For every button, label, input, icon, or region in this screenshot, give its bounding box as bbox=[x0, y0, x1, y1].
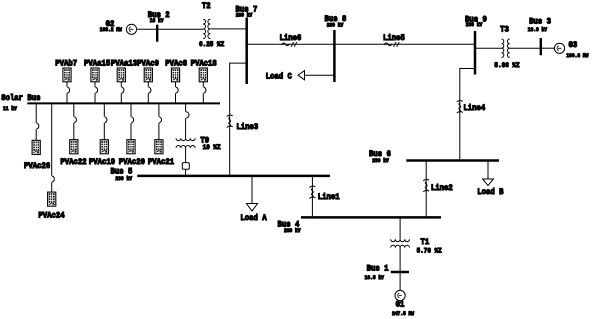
wire Bus 1 to G1 bbox=[399, 273, 401, 290]
svg-text:11 kV: 11 kV bbox=[3, 106, 17, 112]
svg-text:16.5 kV: 16.5 kV bbox=[365, 275, 384, 281]
line Line4 (Bus 9 - Bus 6) bbox=[457, 69, 486, 160]
svg-text:Load B: Load B bbox=[477, 188, 504, 198]
svg-text:PVAb7: PVAb7 bbox=[55, 59, 77, 69]
wire Bus 4 to T1 bbox=[399, 219, 401, 240]
load Load B bbox=[477, 162, 504, 198]
svg-text:5.86 %Z: 5.86 %Z bbox=[494, 61, 519, 68]
breaker box under T9 bbox=[182, 163, 189, 170]
svg-text:230 kV: 230 kV bbox=[466, 22, 483, 28]
svg-text:230 kV: 230 kV bbox=[115, 176, 132, 182]
bus Bus 9 (230 kV) bbox=[465, 15, 487, 75]
generator G2 bbox=[100, 20, 137, 35]
bus Solar Bus (11 kV) bbox=[1, 94, 220, 113]
svg-text:Line6: Line6 bbox=[279, 33, 301, 43]
svg-text:247.5 MW: 247.5 MW bbox=[392, 311, 414, 317]
PV array PVAc20 bbox=[119, 104, 146, 167]
PV array PVAc21 bbox=[148, 104, 175, 167]
svg-text:163.2 MW: 163.2 MW bbox=[100, 27, 122, 33]
svg-text:230 kV: 230 kV bbox=[284, 228, 301, 234]
bus Bus 6 (230 kV) bbox=[369, 149, 499, 164]
svg-text:PVAc24: PVAc24 bbox=[38, 211, 65, 221]
svg-text:PVAc18: PVAc18 bbox=[191, 59, 218, 69]
svg-text:230 kV: 230 kV bbox=[327, 22, 344, 28]
svg-text:13.8 kV: 13.8 kV bbox=[528, 27, 547, 33]
svg-text:T2: T2 bbox=[202, 2, 211, 12]
PV array PVAa15 bbox=[84, 59, 111, 102]
svg-text:T1: T1 bbox=[421, 238, 430, 248]
line Line6 (Bus 7 - Bus 8) bbox=[247, 33, 334, 46]
svg-text:Line1: Line1 bbox=[318, 193, 340, 203]
generator G3 bbox=[554, 40, 588, 59]
PV array PVAc18 bbox=[191, 59, 218, 102]
wire T1 to Bus 1 bbox=[399, 248, 401, 271]
svg-text:230 kV: 230 kV bbox=[372, 158, 389, 164]
svg-text:PVAa15: PVAa15 bbox=[84, 59, 111, 69]
line Line5 (Bus 8 - Bus 9) bbox=[334, 33, 474, 46]
svg-text:Line2: Line2 bbox=[431, 184, 453, 194]
wire Solar Bus to T9 bbox=[186, 104, 189, 138]
svg-text:6.25 %Z: 6.25 %Z bbox=[199, 41, 224, 48]
wire G2 to Bus 2 bbox=[137, 28, 156, 30]
load Load A bbox=[240, 177, 267, 223]
bus Bus 4 (230 kV) bbox=[277, 217, 441, 234]
svg-text:PVAc21: PVAc21 bbox=[148, 157, 175, 167]
svg-text:PVAc22: PVAc22 bbox=[60, 157, 87, 167]
transformer T1 (5.76 %Z) bbox=[391, 238, 442, 255]
svg-text:G1: G1 bbox=[396, 300, 405, 310]
svg-text:T3: T3 bbox=[500, 25, 509, 35]
PV array PVAc22 bbox=[60, 104, 87, 167]
svg-text:Load A: Load A bbox=[240, 214, 267, 224]
wire breaker box to Bus 5 bbox=[185, 169, 187, 175]
load Load C bbox=[266, 71, 335, 82]
transformer T2 (6.25 %Z) bbox=[199, 2, 224, 49]
svg-text:PVAc26: PVAc26 bbox=[24, 162, 51, 172]
wire Bus 2 to T2 bbox=[157, 28, 203, 30]
generator G1 bbox=[392, 290, 414, 317]
svg-text:PVAc9: PVAc9 bbox=[137, 59, 159, 69]
svg-text:Bus 1: Bus 1 bbox=[367, 264, 389, 274]
line Line1 (Bus 5 - Bus 4) bbox=[309, 177, 340, 216]
bus Bus 5 (230 kV) bbox=[111, 167, 330, 182]
bus Bus 3 (13.8 kV) bbox=[528, 17, 552, 55]
PV array PVAc26 bbox=[24, 104, 51, 171]
line Line3 (Bus 7 - Bus 5) bbox=[227, 63, 259, 175]
bus Bus 8 (230 kV) bbox=[325, 15, 347, 82]
PV array PVAa13 bbox=[111, 59, 138, 102]
svg-text:230 kV: 230 kV bbox=[236, 12, 253, 18]
svg-text:PVAc20: PVAc20 bbox=[119, 157, 146, 167]
bus Bus 7 (230 kV) bbox=[235, 5, 257, 84]
svg-text:PVAa13: PVAa13 bbox=[111, 59, 138, 69]
svg-text:Bus 3: Bus 3 bbox=[529, 17, 551, 27]
svg-text:Solar Bus: Solar Bus bbox=[1, 94, 41, 104]
wire T9 to breaker box bbox=[185, 148, 187, 163]
svg-text:Bus 5: Bus 5 bbox=[111, 167, 133, 177]
PV array PVAb7 bbox=[55, 59, 77, 102]
svg-text:PVAc19: PVAc19 bbox=[89, 157, 116, 167]
svg-text:10 %Z: 10 %Z bbox=[203, 143, 221, 150]
PV array PVAc9 bbox=[137, 59, 159, 102]
wire T3 to Bus 3 bbox=[510, 47, 541, 49]
svg-text:18 kV: 18 kV bbox=[150, 18, 164, 24]
wire Bus 9 to T3 bbox=[475, 47, 502, 49]
PV array PVAc19 bbox=[89, 104, 116, 167]
svg-text:Bus 6: Bus 6 bbox=[369, 149, 391, 159]
svg-text:100.3 MW: 100.3 MW bbox=[566, 53, 588, 59]
line Line2 (Bus 6 - Bus 4) bbox=[423, 162, 453, 217]
PV array PVAc24 bbox=[38, 104, 65, 220]
svg-text:Line5: Line5 bbox=[383, 33, 405, 43]
wire Bus 3 to G3 bbox=[541, 47, 555, 49]
svg-text:G3: G3 bbox=[569, 40, 578, 50]
svg-text:Line3: Line3 bbox=[236, 123, 258, 133]
wire T2 to Bus 7 bbox=[210, 28, 246, 30]
PV array PVAc8 bbox=[165, 59, 187, 102]
svg-text:5.76 %Z: 5.76 %Z bbox=[417, 247, 442, 254]
svg-text:Load C: Load C bbox=[266, 72, 293, 82]
transformer T3 (5.86 %Z) bbox=[494, 25, 519, 69]
svg-text:Line4: Line4 bbox=[463, 104, 485, 114]
bus Bus 2 (18 kV) bbox=[148, 10, 170, 41]
svg-text:PVAc8: PVAc8 bbox=[165, 59, 187, 69]
transformer T9 (10 %Z) bbox=[176, 136, 221, 151]
bus Bus 1 (16.5 kV) bbox=[365, 264, 409, 281]
